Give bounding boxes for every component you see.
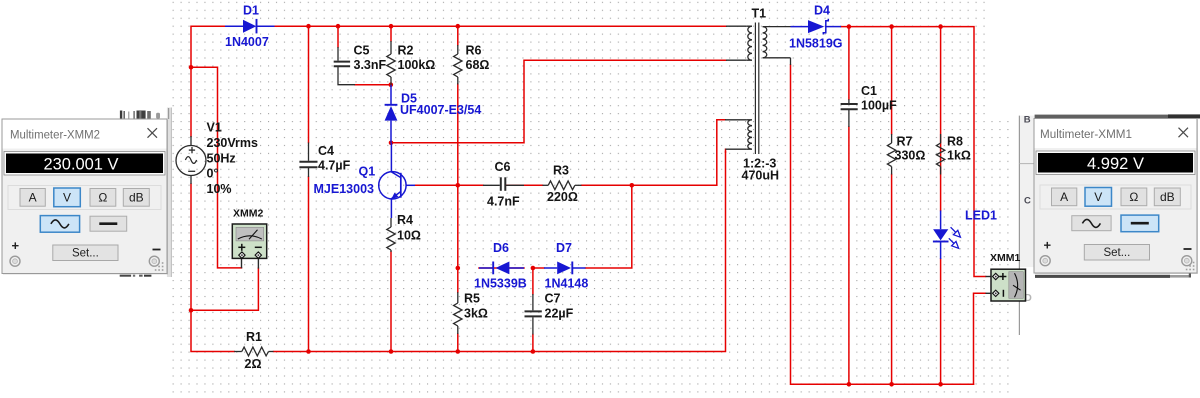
svg-text:1N4148: 1N4148 <box>545 277 589 291</box>
svg-text:100µF: 100µF <box>861 99 897 113</box>
svg-text:1N5339B: 1N5339B <box>474 277 527 291</box>
svg-text:3.3nF: 3.3nF <box>354 58 387 72</box>
svg-text:XMM1: XMM1 <box>990 252 1020 264</box>
svg-text:1kΩ: 1kΩ <box>947 149 971 163</box>
svg-text:XMM2: XMM2 <box>233 208 263 220</box>
svg-text:V: V <box>63 191 71 205</box>
svg-text:Q1: Q1 <box>359 165 376 179</box>
svg-text:UF4007-E3/54: UF4007-E3/54 <box>400 103 481 117</box>
svg-text:330Ω: 330Ω <box>895 149 926 163</box>
svg-text:10%: 10% <box>207 182 232 196</box>
svg-text:100kΩ: 100kΩ <box>398 58 436 72</box>
svg-text:Ω: Ω <box>98 191 107 205</box>
svg-text:R1: R1 <box>246 330 262 344</box>
svg-text:0°: 0° <box>207 167 219 181</box>
svg-text:470uH: 470uH <box>742 169 780 183</box>
svg-text:C7: C7 <box>545 292 561 306</box>
svg-text:Ω: Ω <box>1129 190 1138 204</box>
svg-text:4.992 V: 4.992 V <box>1087 154 1145 173</box>
svg-text:Set...: Set... <box>72 248 99 260</box>
svg-text:MJE13003: MJE13003 <box>314 182 375 196</box>
svg-text:R5: R5 <box>464 292 480 306</box>
svg-text:3kΩ: 3kΩ <box>464 307 488 321</box>
svg-text:LED1: LED1 <box>965 209 997 223</box>
svg-text:A: A <box>29 191 37 205</box>
svg-text:22µF: 22µF <box>545 307 574 321</box>
svg-text:Multimeter-XMM1: Multimeter-XMM1 <box>1040 127 1132 141</box>
svg-text:4.7µF: 4.7µF <box>318 159 351 173</box>
svg-text:D6: D6 <box>493 241 509 255</box>
svg-text:B: B <box>1024 115 1031 126</box>
svg-text:dB: dB <box>1160 190 1175 204</box>
svg-text:2Ω: 2Ω <box>245 357 262 371</box>
svg-text:R8: R8 <box>947 135 963 149</box>
svg-text:+: + <box>12 238 20 253</box>
svg-text:C4: C4 <box>318 144 334 158</box>
svg-text:R3: R3 <box>553 164 569 178</box>
svg-text:Set...: Set... <box>1103 247 1130 259</box>
svg-text:10Ω: 10Ω <box>397 229 421 243</box>
svg-text:230.001 V: 230.001 V <box>44 154 120 173</box>
svg-text:D7: D7 <box>556 241 572 255</box>
svg-text:50Hz: 50Hz <box>207 152 236 166</box>
svg-text:T1: T1 <box>752 7 767 21</box>
svg-text:220Ω: 220Ω <box>547 190 578 204</box>
svg-text:R2: R2 <box>398 44 414 58</box>
svg-text:68Ω: 68Ω <box>466 58 490 72</box>
svg-text:+: + <box>1044 238 1052 253</box>
svg-text:1N5819G: 1N5819G <box>789 37 843 51</box>
svg-text:R6: R6 <box>466 44 482 58</box>
svg-text:230Vrms: 230Vrms <box>207 136 258 150</box>
svg-text:A: A <box>1060 190 1068 204</box>
svg-text:C1: C1 <box>861 84 877 98</box>
svg-text:C6: C6 <box>495 160 511 174</box>
svg-text:Multimeter-XMM2: Multimeter-XMM2 <box>10 128 100 142</box>
svg-text:4.7nF: 4.7nF <box>487 195 520 209</box>
svg-text:V1: V1 <box>207 121 222 135</box>
svg-text:D1: D1 <box>243 4 259 18</box>
svg-text:C: C <box>1024 195 1031 206</box>
svg-text:R7: R7 <box>897 135 913 149</box>
svg-text:dB: dB <box>129 191 144 205</box>
svg-text:V: V <box>1094 190 1102 204</box>
svg-text:R4: R4 <box>397 213 413 227</box>
svg-text:C5: C5 <box>354 44 370 58</box>
svg-text:1N4007: 1N4007 <box>225 35 269 49</box>
svg-text:D4: D4 <box>814 4 830 18</box>
